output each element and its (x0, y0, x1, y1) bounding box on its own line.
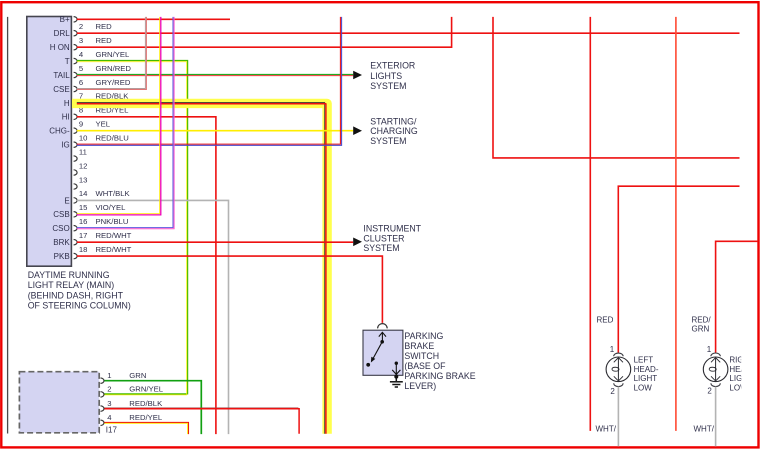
pin 15 connector arc (74, 212, 78, 217)
pin 17 connector arc (74, 239, 78, 244)
svg-text:CHARGING: CHARGING (370, 126, 418, 136)
svg-text:VIO/YEL: VIO/YEL (96, 203, 127, 212)
svg-text:B+: B+ (60, 15, 70, 24)
svg-text:HI: HI (62, 113, 70, 122)
wire RED vertical x=590 (589, 17, 591, 431)
svg-text:SWITCH: SWITCH (404, 351, 439, 361)
pin 4 connector arc (74, 58, 78, 63)
svg-text:WHT/BLK: WHT/BLK (96, 189, 131, 198)
switch S1 fixed contact dot (366, 363, 370, 367)
svg-text:3: 3 (79, 36, 83, 45)
ground symbol below switch (390, 377, 403, 387)
svg-text:LEFT: LEFT (634, 356, 654, 365)
pin 13 connector arc (74, 184, 78, 189)
svg-text:WHT/: WHT/ (694, 424, 715, 433)
svg-text:1: 1 (610, 345, 615, 354)
svg-text:HEAD-: HEAD- (634, 365, 659, 374)
wire I17 pin3 RED/BLK (black stripe) (104, 407, 298, 409)
svg-text:14: 14 (79, 189, 88, 198)
wire RED vertical x=676 (orange tint) (675, 17, 677, 431)
lamp RIGHT HEADLIGHT LOW (703, 353, 728, 387)
wire I17 pin4 RED/YEL (red) (104, 422, 188, 434)
connector I17 pin 3 arc (101, 406, 105, 411)
svg-text:LIGHTS: LIGHTS (370, 71, 402, 81)
svg-text:BRK: BRK (53, 238, 70, 247)
pin 7 connector arc (74, 100, 78, 105)
svg-text:PARKING BRAKE: PARKING BRAKE (404, 371, 475, 381)
svg-text:GRN: GRN (129, 371, 146, 380)
svg-text:T: T (65, 57, 70, 66)
pin 8 connector arc (74, 114, 78, 119)
switch S1 pivot dot (380, 340, 384, 344)
svg-text:SYSTEM: SYSTEM (363, 243, 399, 253)
svg-text:IG: IG (61, 141, 69, 150)
wire BLK vertical at left edge (7, 17, 9, 434)
wire WHT left headlight ground (617, 387, 619, 447)
svg-text:(BASE OF: (BASE OF (404, 361, 446, 371)
pin 3 connector arc (74, 45, 78, 50)
svg-text:RED: RED (96, 22, 113, 31)
svg-text:RED: RED (597, 315, 614, 324)
svg-text:2: 2 (107, 385, 111, 394)
wire pin9 CHG- YEL (77, 130, 353, 132)
arrow to INSTRUMENT CLUSTER SYSTEM (353, 238, 362, 247)
pin 6 connector arc (74, 86, 77, 91)
relay U1 DAYTIME RUNNING LIGHT RELAY (MAIN) box (27, 17, 72, 267)
svg-text:GRN/RED: GRN/RED (96, 64, 132, 73)
connector I17 box (dashed) (19, 372, 99, 433)
svg-text:H: H (64, 99, 70, 108)
svg-text:17: 17 (79, 231, 88, 240)
svg-text:SYSTEM: SYSTEM (370, 81, 406, 91)
svg-text:9: 9 (79, 120, 83, 129)
pin 14 connector arc (74, 198, 78, 203)
pin 10 connector arc (74, 142, 78, 147)
svg-text:RED: RED (96, 36, 113, 45)
svg-text:DRL: DRL (54, 29, 71, 38)
svg-text:18: 18 (79, 245, 88, 254)
svg-text:11: 11 (79, 147, 87, 156)
svg-text:RED/WHT: RED/WHT (96, 231, 132, 240)
svg-text:13: 13 (79, 175, 88, 184)
svg-text:15: 15 (79, 203, 88, 212)
svg-text:10: 10 (79, 134, 88, 143)
svg-text:GRN/YEL: GRN/YEL (96, 50, 130, 59)
svg-text:4: 4 (79, 50, 84, 59)
svg-text:CSO: CSO (52, 224, 69, 233)
svg-text:YEL: YEL (96, 120, 111, 129)
switch S1 ground branch down arrow (395, 362, 398, 365)
svg-text:RED/WHT: RED/WHT (96, 245, 132, 254)
pin 1 connector arc (74, 17, 77, 22)
wire pin18 PKB RED/WHT (77, 256, 383, 323)
label INSTRUMENT CLUSTER SYSTEM (363, 223, 421, 253)
wire pin2 DRL RED (77, 32, 740, 34)
switch S1 PARKING BRAKE SWITCH connector arc (378, 324, 388, 329)
junction dot at switch box bottom (394, 375, 398, 379)
pin 5 connector arc (74, 72, 77, 77)
label PARKING BRAKE SWITCH caption (404, 331, 475, 391)
highlight band (yellow) on pin7 circuit (72, 103, 327, 433)
wire I17 pin3 RED/BLK (red) (104, 409, 299, 434)
svg-text:PNK/BLU: PNK/BLU (96, 217, 129, 226)
svg-text:LIGHT RELAY (MAIN): LIGHT RELAY (MAIN) (28, 280, 115, 290)
svg-text:RED/BLK: RED/BLK (129, 399, 163, 408)
arrow to STARTING/CHARGING SYSTEM (353, 126, 362, 135)
pin 18 connector arc (74, 253, 78, 258)
svg-text:LOW: LOW (634, 383, 653, 392)
wire pin8 HI RED/YEL (77, 117, 216, 434)
svg-text:EXTERIOR: EXTERIOR (370, 61, 415, 71)
pin 16 connector arc (74, 226, 78, 231)
wire pin1 B+ RED (77, 18, 230, 20)
svg-text:INSTRUMENT: INSTRUMENT (363, 223, 421, 233)
svg-text:CHG-: CHG- (49, 127, 70, 136)
svg-text:SYSTEM: SYSTEM (370, 136, 406, 146)
connector I17 pin 1 arc (101, 378, 105, 383)
wire pin17 BRK RED/WHT (77, 241, 353, 243)
svg-text:3: 3 (107, 399, 111, 408)
wire I17 pin4 RED/YEL (yellow stripe) (104, 423, 187, 434)
wire pin10 IG RED/BLU (blue stripe) (77, 17, 342, 145)
label EXTERIOR LIGHTS SYSTEM (370, 61, 415, 92)
wire pin16 CSO PNK/BLU (blue stripe) (77, 17, 173, 228)
svg-text:6: 6 (79, 78, 83, 87)
svg-text:RED/YEL: RED/YEL (129, 413, 163, 422)
wire pin16 CSO PNK/BLU (pink) (77, 17, 174, 229)
wire pin7 H RED/BLK (black stripe) (77, 103, 325, 434)
svg-text:BRAKE: BRAKE (404, 341, 434, 351)
switch S1 PARKING BRAKE SWITCH box (363, 330, 403, 375)
svg-text:PKB: PKB (54, 252, 70, 261)
svg-text:I17: I17 (106, 426, 118, 435)
svg-text:CLUSTER: CLUSTER (363, 233, 404, 243)
wire pin15 CSB VIO/YEL (yellow stripe) (77, 17, 160, 214)
wire pin10 IG RED/BLU (red) (77, 17, 341, 144)
wire pin4 T GRN/YEL (77, 61, 188, 394)
svg-text:4: 4 (107, 413, 112, 422)
lamp LEFT HEADLIGHT LOW (606, 353, 631, 387)
svg-text:PARKING: PARKING (404, 331, 443, 341)
pin 2 connector arc (74, 31, 78, 36)
svg-text:2: 2 (707, 386, 712, 395)
label RIGHT HEADLIGHT LOW (clipped) (729, 356, 754, 393)
wire RED/GRN feed to right headlight: y=241 horizontal, down x=716 (716, 241, 758, 352)
wire pin14 E WHT/BLK (77, 200, 229, 434)
svg-text:LEVER): LEVER) (404, 381, 436, 391)
wire RED feed to left headlight: y=186 horizontal, down x=618 (618, 186, 739, 352)
wire pin6 CSE GRY/RED (77, 17, 146, 89)
svg-text:CSB: CSB (53, 210, 69, 219)
svg-text:1: 1 (707, 345, 712, 354)
connector I17 pin 4 arc (101, 420, 105, 425)
wire RED net V1: vertical x=493 to horizontal y=158 (493, 17, 740, 158)
switch S1 terminal line with up arrow (381, 332, 383, 341)
wire pin7 H RED/BLK (red) (77, 104, 326, 434)
svg-text:DAYTIME RUNNING: DAYTIME RUNNING (28, 270, 110, 280)
pin 9 connector arc (74, 128, 77, 133)
svg-text:GRY/RED: GRY/RED (96, 78, 131, 87)
svg-text:16: 16 (79, 217, 88, 226)
svg-text:E: E (64, 196, 69, 205)
svg-text:CSE: CSE (53, 85, 69, 94)
svg-text:TAIL: TAIL (53, 71, 70, 80)
wire pin3 H ON RED (77, 17, 452, 47)
pin 11 connector arc (74, 156, 78, 161)
svg-text:(BEHIND DASH, RIGHT: (BEHIND DASH, RIGHT (28, 290, 124, 300)
pin 12 connector arc (74, 170, 77, 175)
wire pin5 TAIL GRN/RED (77, 73, 353, 75)
svg-text:GRN/YEL: GRN/YEL (129, 385, 163, 394)
wire I17 pin1 GRN (104, 381, 201, 434)
svg-text:2: 2 (79, 22, 83, 31)
svg-text:OF STEERING COLUMN): OF STEERING COLUMN) (28, 301, 131, 311)
wire pin15 CSB VIO/YEL (magenta) (77, 17, 161, 215)
svg-text:WHT/: WHT/ (596, 424, 617, 433)
svg-text:STARTING/: STARTING/ (370, 116, 417, 126)
svg-text:LIGHT: LIGHT (634, 374, 658, 383)
wire WHT right headlight ground (715, 387, 717, 447)
svg-text:GRN: GRN (692, 325, 710, 334)
relay U1 caption (28, 270, 131, 311)
switch S1 movable arm (373, 342, 382, 359)
svg-text:2: 2 (610, 387, 615, 396)
arrow to EXTERIOR LIGHTS SYSTEM (353, 71, 362, 80)
svg-text:RED/: RED/ (692, 315, 712, 324)
svg-text:H ON: H ON (50, 43, 70, 52)
label STARTING/CHARGING SYSTEM (370, 116, 418, 146)
svg-text:5: 5 (79, 64, 83, 73)
label LEFT HEADLIGHT LOW (634, 356, 659, 393)
svg-text:1: 1 (107, 371, 111, 380)
svg-text:RED/BLU: RED/BLU (96, 134, 129, 143)
connector I17 pin 2 arc (101, 392, 104, 397)
svg-text:12: 12 (79, 161, 88, 170)
